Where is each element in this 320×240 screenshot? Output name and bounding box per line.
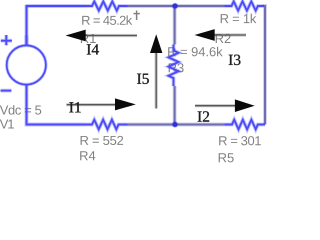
current arrow I5 head [150,34,162,53]
wire top-left horizontal to R1 [26,4,86,8]
resistor R5 [224,120,265,130]
V1 minus sign [1,89,12,93]
label R = 94.6k [168,47,223,57]
wire R4 to node B to R5 (purple) [128,123,224,127]
resistor R1 [85,1,128,10]
current arrow I3 head [195,29,215,41]
label R2 [216,34,231,43]
wire node A down to R3 (purple) [173,6,177,45]
label R1 [81,34,96,43]
junction node A (top) [172,3,178,9]
label I2 [198,111,210,121]
resistor R4 [84,120,128,130]
label R = 1k [221,14,257,23]
text cursor cross [134,11,140,21]
wire R1 to node A to R2 (purple) [128,4,225,8]
resistor R2 [224,1,264,10]
wire R3 bottom to node B (purple) [173,86,177,125]
label Vdc = 5 [0,105,41,115]
current arrow I1 head [115,98,136,110]
label R4 [80,151,95,160]
label R = 552 [81,136,124,145]
label I4 [87,44,99,54]
label R5 [219,153,234,162]
V1 bottom pin [25,84,29,94]
label I5 [137,74,149,84]
wire V1 top to corner (blue vertical) [25,5,29,46]
label R = 301 [219,136,261,145]
current arrow I5 tail [155,53,158,109]
label I3 [229,55,241,65]
current arrow I4 head [66,30,86,42]
resistor R3 (vertical) [169,45,179,87]
V1 plus sign [1,35,12,45]
label R3 [169,63,184,72]
current arrow I1 tail [67,103,116,106]
label R = 45.2k [82,15,132,25]
current arrow I2 tail [195,104,235,107]
wire V1 bottom to corner to R4 (blue) [27,95,85,125]
current arrow I4 tail [86,34,138,37]
current arrow I2 head [235,99,255,112]
voltage source V1 circle [7,45,46,84]
V1 top pin [25,35,29,45]
current arrow I3 tail [215,33,247,36]
wire R2 right, right edge down (purple) [263,6,265,125]
junction node B (bottom) [172,121,178,127]
label I1 [69,102,80,112]
label V1 [0,120,14,129]
